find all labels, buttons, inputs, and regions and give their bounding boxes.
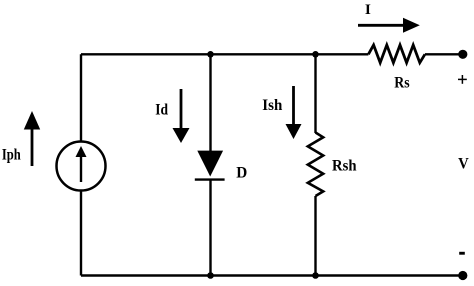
wire shunt branch lower <box>314 196 316 276</box>
wire top: shunt node to Rs <box>316 53 369 55</box>
svg-text:D: D <box>236 165 247 182</box>
current source U1 circle <box>57 142 106 191</box>
node junction bottom of diode branch <box>207 272 214 279</box>
current source U1 inner arrow <box>76 146 87 182</box>
arrow Id <box>173 89 190 143</box>
wire bottom: shunt node to negative terminal <box>316 274 461 276</box>
svg-text:Id: Id <box>155 102 168 119</box>
node junction top of diode branch <box>207 51 214 58</box>
svg-text:Iph: Iph <box>2 146 21 163</box>
node junction bottom of shunt branch <box>312 272 319 279</box>
wire left vertical above current source <box>80 54 82 142</box>
svg-text:Rsh: Rsh <box>332 158 357 175</box>
arrow Iph <box>24 111 40 166</box>
wire shunt branch upper <box>314 54 316 133</box>
node junction top of shunt branch <box>312 51 319 58</box>
resistor Rsh <box>308 133 323 197</box>
wire top: left corner to diode node <box>81 53 211 55</box>
svg-text:I: I <box>365 2 371 18</box>
wire diode branch upper <box>209 54 211 151</box>
arrow Ish <box>286 86 302 139</box>
node: positive terminal dot <box>458 50 467 59</box>
wire bottom: left corner to diode node <box>81 274 211 276</box>
node: negative terminal dot <box>458 271 467 280</box>
wire top: Rs to positive terminal <box>425 53 460 55</box>
resistor Rs <box>368 45 425 63</box>
label plus <box>458 75 467 84</box>
wire left vertical below current source <box>80 191 82 276</box>
label minus <box>459 252 465 255</box>
svg-text:V: V <box>458 155 469 172</box>
arrow I <box>358 18 420 33</box>
svg-text:Rs: Rs <box>394 75 409 92</box>
wire top: diode node to shunt node <box>211 53 316 55</box>
wire bottom: diode node to shunt node <box>211 274 316 276</box>
svg-text:Ish: Ish <box>262 97 282 114</box>
wire diode branch lower <box>209 180 211 276</box>
diode D symbol <box>195 151 225 180</box>
